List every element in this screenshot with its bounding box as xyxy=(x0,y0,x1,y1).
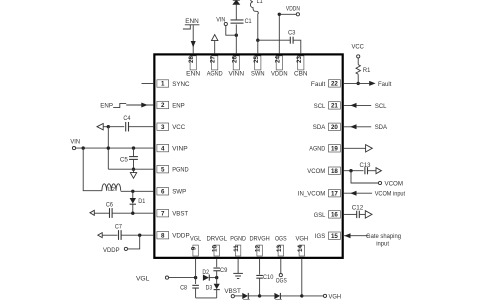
junction dot VGL/C8/pin9 xyxy=(194,276,197,279)
pin 25 (SWN) xyxy=(251,56,265,78)
earth ground symbol at pin 11 xyxy=(233,273,243,278)
wire arrow to C6 xyxy=(94,212,109,214)
junction dot VIN/L2 branch xyxy=(82,146,85,149)
pin 13 (OGS) xyxy=(275,236,287,257)
pin 16 (GSL) xyxy=(314,211,341,219)
svg-text:19: 19 xyxy=(331,146,338,153)
node VDDP terminal xyxy=(103,247,127,254)
wire C4 to pin 3 VCC xyxy=(129,126,154,128)
svg-text:10: 10 xyxy=(212,245,219,252)
diode D4 (rail) xyxy=(242,293,248,299)
svg-text:VIN: VIN xyxy=(70,139,80,146)
node VCC terminal xyxy=(352,43,365,58)
wire pin 26 up to C1 xyxy=(235,24,237,53)
svg-text:L1: L1 xyxy=(257,0,263,5)
svg-text:OGS: OGS xyxy=(275,236,287,243)
svg-text:VINP: VINP xyxy=(172,146,188,153)
svg-text:D1: D1 xyxy=(138,198,145,205)
svg-text:VIN: VIN xyxy=(216,16,225,23)
junction dot C5 bottom on PGND line xyxy=(132,168,135,171)
svg-text:C1: C1 xyxy=(245,18,252,25)
inductor L2 xyxy=(102,184,121,193)
pin 22 (Fault) xyxy=(311,80,341,88)
svg-text:ENN: ENN xyxy=(185,18,199,25)
svg-text:PGND: PGND xyxy=(230,236,246,243)
capacitor C10 xyxy=(256,274,273,296)
svg-text:C9: C9 xyxy=(220,267,228,274)
svg-text:14: 14 xyxy=(297,245,304,252)
pin 7 (VBST) xyxy=(157,210,188,218)
supply arrow above C1 (filled up triangle, cut at top) xyxy=(232,0,240,5)
pin 1 (SYNC) xyxy=(157,80,190,88)
wire C7 to pin 8 VDDP xyxy=(121,234,153,236)
wire pin 11 down to ground xyxy=(237,259,239,274)
svg-text:8: 8 xyxy=(161,232,165,239)
svg-text:ENP: ENP xyxy=(172,102,185,109)
wire pin 22 to Fault output with arrowhead xyxy=(344,81,392,88)
svg-text:D2: D2 xyxy=(202,269,209,276)
PGND wire to pin 5 xyxy=(108,168,153,170)
svg-text:IN_VCOM: IN_VCOM xyxy=(298,191,326,198)
pin 9 (VGL) xyxy=(190,236,202,257)
svg-text:22: 22 xyxy=(331,81,338,88)
svg-text:VCOM input: VCOM input xyxy=(375,191,405,198)
node VGH terminal xyxy=(323,293,341,300)
svg-text:SWN: SWN xyxy=(251,71,265,78)
junction dot VIN/C1/pin26 xyxy=(235,34,238,37)
junction dot VIN/C5 top xyxy=(132,146,135,149)
svg-text:2: 2 xyxy=(161,102,165,109)
svg-text:C12: C12 xyxy=(352,204,364,211)
pin 28 (ENN) xyxy=(186,56,200,78)
wire to second diode xyxy=(260,295,275,297)
junction dot D2/pin10 line xyxy=(215,276,218,279)
wire pin 10 down to C9 xyxy=(216,259,218,267)
svg-text:VDDP: VDDP xyxy=(172,233,190,240)
node VDDN terminal xyxy=(286,6,300,16)
wire VGL to junction xyxy=(169,277,196,279)
svg-text:C4: C4 xyxy=(123,115,130,122)
pin 20 (SDA) xyxy=(313,123,341,131)
pin 3 (VCC) xyxy=(157,123,186,131)
wire VBST to diode xyxy=(234,295,242,297)
pin 27 (AGND) xyxy=(207,56,223,78)
svg-text:20: 20 xyxy=(331,124,338,131)
capacitor C6 xyxy=(106,202,113,218)
stub wire at pin 1 SYNC xyxy=(142,83,154,85)
wire C6 to pin 7 VBST xyxy=(112,212,153,214)
svg-text:C13: C13 xyxy=(360,162,371,169)
svg-text:VCC: VCC xyxy=(352,43,365,50)
svg-text:3: 3 xyxy=(161,124,165,131)
svg-text:VDDN: VDDN xyxy=(286,6,300,13)
junction dot Fault xyxy=(357,82,360,85)
page connector arrow at C4 (open left triangle) xyxy=(97,124,108,130)
junction dot VIN/C4-gnd crossing xyxy=(107,146,110,149)
svg-text:OGS: OGS xyxy=(276,277,288,284)
junction dot SWP/D1 xyxy=(131,190,134,193)
wire pin 24 up to VDDN node xyxy=(278,14,280,53)
wire VIN branch down to L2 xyxy=(83,148,102,191)
svg-text:SWP: SWP xyxy=(172,189,187,196)
svg-text:7: 7 xyxy=(161,210,165,217)
svg-text:6: 6 xyxy=(161,189,165,196)
svg-text:26: 26 xyxy=(231,56,238,63)
wire SWN junction to C3 xyxy=(258,39,290,41)
capacitor C7 xyxy=(115,223,122,240)
pin 15 (IGS) xyxy=(315,232,341,240)
junction dot VDDP branch xyxy=(138,234,141,237)
pin 26 (VINN) xyxy=(229,56,245,78)
svg-text:VBST: VBST xyxy=(172,211,188,218)
svg-text:12: 12 xyxy=(255,245,262,252)
wire C12 to open arrow xyxy=(359,211,372,218)
capacitor C1 xyxy=(231,18,252,25)
AGND arrow at pin 19 (open right triangle) xyxy=(344,145,373,152)
svg-text:AGND: AGND xyxy=(207,71,223,78)
wire VIN to pin 4 VINP xyxy=(76,147,154,149)
svg-text:SDA: SDA xyxy=(375,124,388,131)
wire C1 top to supply arrow xyxy=(235,5,237,20)
svg-text:VCOM: VCOM xyxy=(385,181,404,188)
pin 11 (PGND) xyxy=(230,236,246,257)
svg-text:16: 16 xyxy=(331,212,338,219)
wire C3 to pin 23 CBN xyxy=(293,40,301,53)
wire pin 12 down to C10 xyxy=(259,259,261,275)
svg-text:VDDP: VDDP xyxy=(103,247,120,254)
svg-text:R1: R1 xyxy=(363,67,371,74)
wire arrow to C7 xyxy=(102,234,117,236)
svg-text:ENP: ENP xyxy=(100,102,113,109)
svg-text:VINN: VINN xyxy=(229,71,245,78)
pin 2 (ENP) xyxy=(157,101,185,109)
pin 10 (DRVGL) xyxy=(206,236,227,257)
svg-text:15: 15 xyxy=(331,233,338,240)
capacitor C5 xyxy=(120,148,138,169)
svg-text:24: 24 xyxy=(274,56,281,63)
svg-text:Fault: Fault xyxy=(311,81,326,88)
junction dot D1/VBST xyxy=(131,212,134,215)
svg-text:VCOM: VCOM xyxy=(307,168,325,175)
wire R1 to Fault node xyxy=(357,74,359,83)
page connector arrow at C7 (open left triangle) xyxy=(98,233,102,238)
svg-text:18: 18 xyxy=(331,168,338,175)
svg-text:4: 4 xyxy=(161,145,165,152)
ground arrow below C5 (open down triangle) xyxy=(130,169,136,178)
pin 21 (SCL) xyxy=(314,102,341,110)
svg-text:VBST: VBST xyxy=(224,288,241,295)
pin 24 (VDDN) xyxy=(271,56,288,78)
pin 8 (VDDP) xyxy=(157,232,190,240)
wire linking C8 and D3 bottoms xyxy=(196,297,217,299)
svg-text:ENN: ENN xyxy=(186,71,200,78)
pin 4 (VINP) xyxy=(157,144,188,152)
capacitor C3 (in series, bootstrap) xyxy=(288,30,296,44)
resistor R1 (vertical zigzag) xyxy=(356,65,371,75)
node ENP (signal with rising-edge symbol) xyxy=(100,102,126,109)
svg-text:Fault: Fault xyxy=(378,81,391,88)
node VBST terminal xyxy=(224,288,241,298)
pin 5 (PGND) xyxy=(157,166,189,174)
node VIN (left terminal) xyxy=(70,139,80,150)
AGND symbol above pin 27 (open up triangle) xyxy=(212,35,218,54)
svg-text:23: 23 xyxy=(296,56,303,63)
svg-text:VGH: VGH xyxy=(295,236,308,243)
wire C13 to open arrow xyxy=(368,168,382,174)
wire junction to C4 xyxy=(108,126,124,128)
svg-text:C3: C3 xyxy=(288,30,296,37)
svg-text:DRVGL: DRVGL xyxy=(206,236,227,243)
pin 19 (AGND) xyxy=(309,145,340,153)
IC body U1 xyxy=(154,54,342,257)
junction dot VCOM node xyxy=(349,169,352,172)
node ENN (signal with rising-edge symbol) xyxy=(183,18,200,29)
wire SCL with arrowhead into pin 21 xyxy=(344,103,387,110)
junction dot VDDN xyxy=(278,13,281,16)
diode D2 xyxy=(202,269,216,281)
svg-text:27: 27 xyxy=(210,56,217,63)
svg-text:VGL: VGL xyxy=(190,236,202,243)
wire L2 to pin 6 SWP xyxy=(121,190,154,192)
wire VCOM input with arrowhead into pin 17 xyxy=(344,191,405,198)
svg-text:VGL: VGL xyxy=(136,275,150,282)
wire to VGH junction xyxy=(280,295,301,297)
capacitor C9 xyxy=(213,267,227,278)
svg-text:Gate shaping: Gate shaping xyxy=(366,233,401,240)
wire C4 node down to PGND line xyxy=(107,127,109,170)
svg-text:input: input xyxy=(376,240,389,247)
wire VCC to R1 xyxy=(357,58,359,65)
svg-text:VGH: VGH xyxy=(329,293,342,300)
wire VIN to C1 bottom xyxy=(226,26,237,36)
diode D5 (rail) xyxy=(274,293,280,299)
svg-text:SCL: SCL xyxy=(375,103,387,110)
svg-text:IGS: IGS xyxy=(315,233,326,240)
wire L1 to SWN junction xyxy=(257,14,259,41)
cut-off label sliver under diode D4 xyxy=(243,298,250,300)
capacitor C13 xyxy=(360,162,371,174)
node VCOM terminal xyxy=(378,181,403,188)
svg-text:VCC: VCC xyxy=(172,124,185,131)
svg-text:L2: L2 xyxy=(108,187,115,193)
svg-text:SDA: SDA xyxy=(313,124,326,131)
diode D1 xyxy=(130,191,146,213)
wire junction down to pin 25 SWN xyxy=(257,40,259,53)
wire to VGH terminal xyxy=(302,295,324,297)
svg-text:C7: C7 xyxy=(115,223,122,230)
wire to VDDP terminal xyxy=(128,235,140,249)
svg-text:17: 17 xyxy=(331,190,338,197)
wire ENP to pin 2 with arrowhead xyxy=(126,103,153,108)
wire to diode D3 xyxy=(216,278,218,284)
svg-text:1: 1 xyxy=(161,81,165,88)
wire pin 13 down to OGS xyxy=(280,259,282,274)
svg-text:SCL: SCL xyxy=(314,103,326,110)
pin 17 (IN_VCOM) xyxy=(298,190,341,198)
pin 23 (CBN) xyxy=(294,56,308,78)
wire pin 9 down xyxy=(195,259,197,278)
svg-text:DRVGH: DRVGH xyxy=(249,236,270,243)
wire to VDDN terminal xyxy=(279,13,296,15)
svg-text:D3: D3 xyxy=(206,284,213,291)
pin 18 (VCOM) xyxy=(307,167,340,175)
wire ENN to pin 28 with arrowhead xyxy=(191,25,196,53)
svg-text:11: 11 xyxy=(233,245,240,252)
junction dot VGH on rail xyxy=(300,294,303,297)
svg-text:AGND: AGND xyxy=(309,146,325,153)
svg-text:CBN: CBN xyxy=(294,71,308,78)
svg-text:5: 5 xyxy=(161,166,165,173)
svg-text:C5: C5 xyxy=(120,157,128,164)
junction dot DRVGH on rail xyxy=(258,294,261,297)
svg-text:VDDN: VDDN xyxy=(271,71,288,78)
capacitor C12 xyxy=(352,204,364,218)
svg-text:21: 21 xyxy=(331,103,338,110)
svg-text:SYNC: SYNC xyxy=(172,81,190,88)
wire pin 16 GSL to C12 xyxy=(344,213,357,215)
node VGL terminal xyxy=(136,275,169,282)
inductor L1 (vertical coil, cut at top) xyxy=(250,0,263,14)
wire SDA with arrowhead into pin 20 xyxy=(344,124,388,131)
capacitor C8 xyxy=(180,278,199,298)
wire to DRVGH junction xyxy=(248,295,259,297)
node OGS terminal xyxy=(276,274,288,285)
capacitor C4 xyxy=(123,115,130,131)
svg-text:25: 25 xyxy=(253,56,260,63)
page connector arrow at C6 (open left triangle) xyxy=(90,210,94,215)
svg-text:9: 9 xyxy=(191,246,198,250)
pin 6 (SWP) xyxy=(157,188,187,196)
svg-text:C8: C8 xyxy=(180,284,187,291)
svg-text:13: 13 xyxy=(276,245,283,252)
pin 14 (VGH) xyxy=(295,236,308,257)
pin 12 (DRVGH) xyxy=(249,236,270,257)
node VIN (top terminal) xyxy=(216,16,227,25)
diode D3 xyxy=(206,284,220,298)
svg-text:C10: C10 xyxy=(263,274,274,281)
junction dot C4 left node xyxy=(107,125,110,128)
svg-text:28: 28 xyxy=(188,56,195,63)
svg-text:PGND: PGND xyxy=(172,167,189,174)
junction dot SWN/L1/bootstrap wire xyxy=(256,39,259,42)
wire pin 14 down to VGH rail xyxy=(301,259,303,296)
wire VCOM node down to VCOM terminal xyxy=(351,171,378,183)
cut-off label sliver under diode D5 xyxy=(275,298,282,300)
svg-text:GSL: GSL xyxy=(314,212,326,219)
svg-text:C6: C6 xyxy=(106,202,113,209)
wire pin 18 VCOM to C13 xyxy=(344,170,364,172)
wire Gate shaping input with arrowhead into pin 15 xyxy=(344,233,401,247)
